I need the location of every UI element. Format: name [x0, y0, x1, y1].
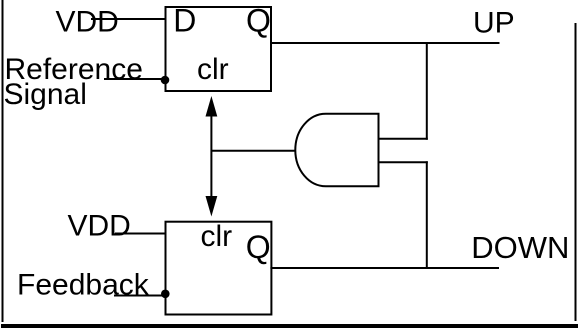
svg-text:Feedback: Feedback	[17, 269, 150, 302]
svg-text:clr: clr	[201, 220, 233, 253]
svg-text:DOWN: DOWN	[471, 230, 569, 265]
svg-text:VDD: VDD	[56, 6, 119, 39]
svg-text:clr: clr	[197, 53, 229, 86]
svg-text:Q: Q	[246, 229, 271, 265]
svg-text:D: D	[173, 3, 196, 39]
svg-text:Signal: Signal	[4, 78, 87, 111]
svg-text:VDD: VDD	[68, 210, 131, 243]
svg-text:Q: Q	[246, 2, 271, 38]
svg-text:UP: UP	[473, 7, 515, 40]
